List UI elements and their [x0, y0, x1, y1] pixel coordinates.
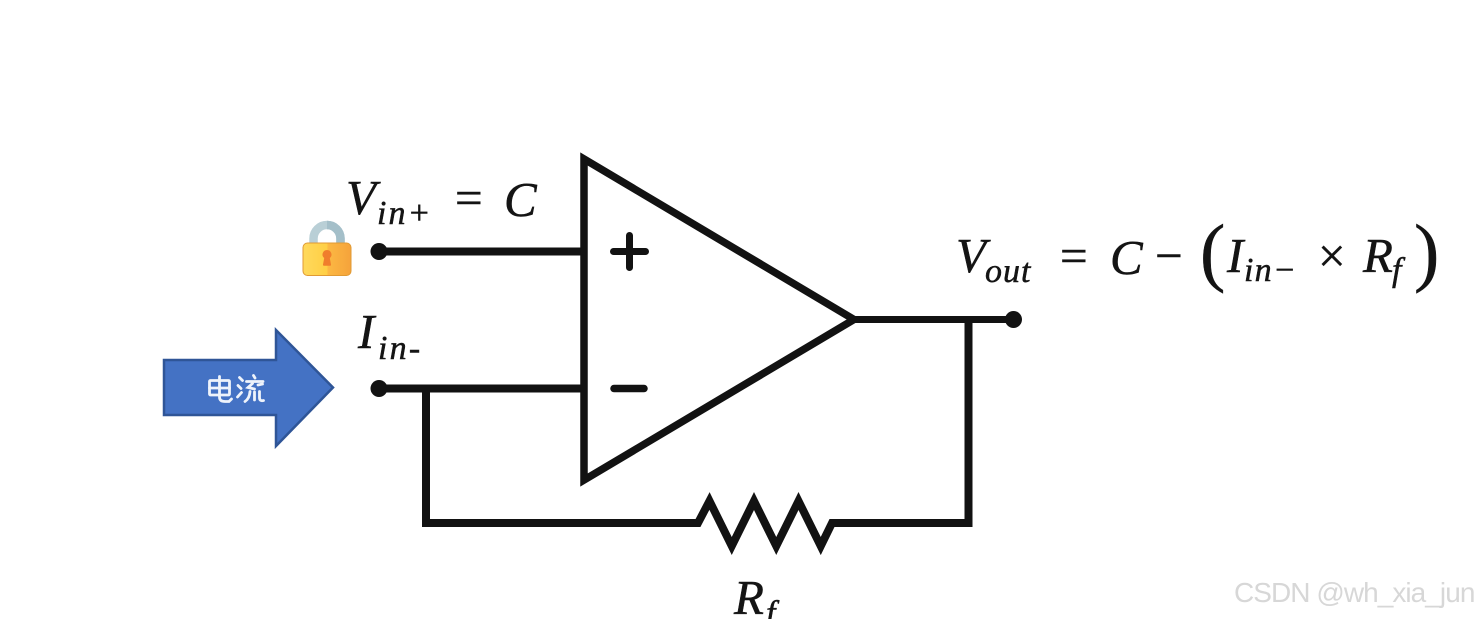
op-amp U1 triangle: [584, 159, 854, 480]
resistor Rf zigzag: [694, 501, 836, 546]
op-amp minus input symbol: [614, 385, 644, 393]
流: [240, 378, 243, 381]
node dot: V_in+ terminal: [371, 243, 388, 260]
svg-text:V: V: [346, 170, 381, 225]
svg-text:out: out: [985, 253, 1032, 290]
svg-text:R: R: [733, 570, 764, 619]
svg-text:C: C: [504, 172, 538, 227]
svg-text:in+: in+: [377, 195, 432, 232]
svg-text:R: R: [1362, 228, 1393, 283]
svg-text:in−: in−: [1244, 252, 1297, 289]
node dot: I_in- terminal: [371, 380, 388, 397]
svg-text:=: =: [1060, 228, 1088, 283]
label Rf (resistor value): [733, 570, 780, 619]
op-amp plus input symbol: [614, 236, 646, 268]
label V_out = C - (I_in- x R_f): [956, 210, 1439, 294]
svg-text:CSDN @wh_xia_jun: CSDN @wh_xia_jun: [1234, 577, 1474, 608]
svg-text:): ): [1414, 210, 1439, 294]
svg-text:C: C: [1110, 230, 1144, 285]
svg-text:I: I: [357, 304, 377, 359]
svg-text:−: −: [1155, 228, 1183, 283]
node dot: output terminal: [1005, 311, 1022, 328]
svg-text:(: (: [1200, 210, 1225, 294]
wire: feedback left drop: [426, 385, 698, 524]
lock icon: [303, 225, 351, 276]
svg-text:I: I: [1226, 228, 1246, 283]
svg-text:in-: in-: [378, 330, 422, 367]
label V_in+ = C: [346, 170, 538, 232]
wire: inverting input: [379, 385, 587, 393]
svg-text:=: =: [455, 170, 483, 225]
svg-text:×: ×: [1318, 228, 1346, 283]
label 电流 (drawn strokes): [210, 376, 264, 402]
wire: feedback bottom right and riser: [832, 316, 969, 523]
label I_in-: [357, 304, 422, 367]
wire: output: [852, 316, 1014, 323]
current arrow (blue): [164, 330, 333, 446]
电: [218, 377, 221, 396]
wire: non-inverting input: [379, 248, 587, 256]
